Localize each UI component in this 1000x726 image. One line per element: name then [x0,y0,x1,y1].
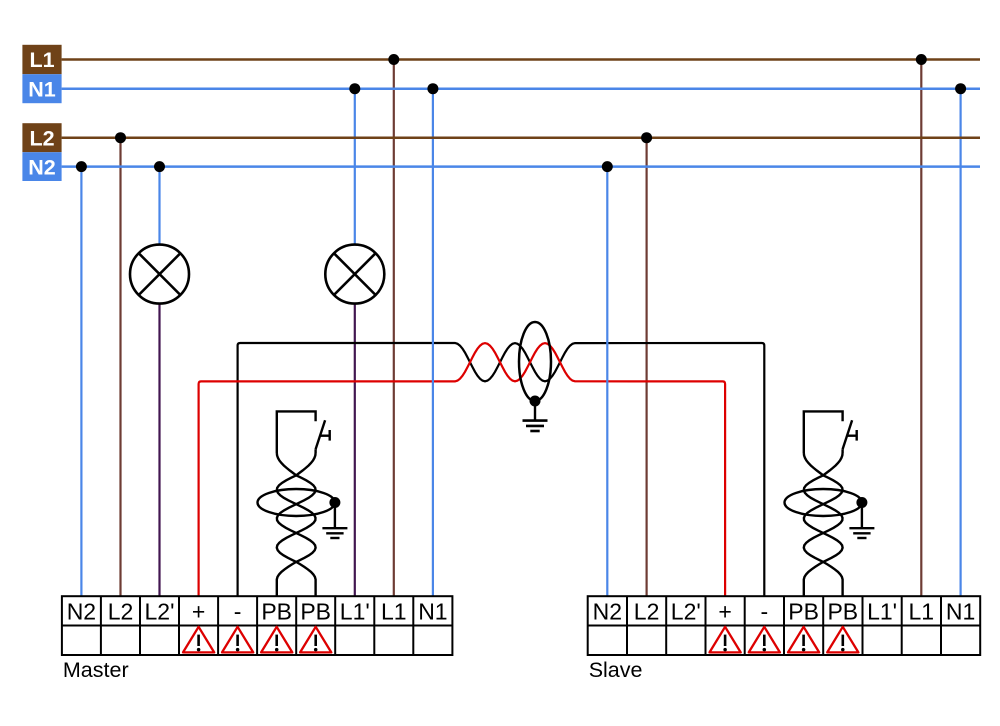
junction dot master L1 [388,54,399,65]
push button slave housing [804,411,843,453]
wire N1 bus to lamp E2 [354,89,356,245]
svg-text:Master: Master [63,658,129,682]
warning triangle Slave + [710,627,741,653]
wire L1 bus to slave L1 terminal [920,60,922,597]
warning triangle Master + [183,627,214,653]
svg-text:PB: PB [827,598,858,624]
ground symbol (bus shield) [523,421,548,431]
push button slave cord wire to PB (right) [804,453,843,596]
bus label box L2 [22,123,61,152]
wire N1 bus to master N1 terminal [432,89,434,597]
svg-text:N1: N1 [28,77,56,101]
push button master shield loop [258,489,335,516]
junction dot slave L1 [916,54,927,65]
svg-text:L2: L2 [108,598,134,624]
junction dot master N2 [76,161,87,172]
terminal strip Master [62,596,453,655]
svg-text:N1: N1 [946,598,975,624]
svg-text:N2: N2 [593,598,622,624]
svg-text:L2': L2' [671,598,701,624]
wire N2 bus to lamp E1 [158,167,160,245]
push button master housing [277,411,316,453]
svg-text:L2: L2 [634,598,660,624]
wire master shield to earth [334,507,336,528]
junction dot slave N2 [602,161,613,172]
wire bus N1 [62,87,980,90]
lamp E2 [325,245,384,304]
junction dot master L2 [115,132,126,143]
wire N1 bus to slave N1 terminal [959,89,961,597]
junction dot master shield [329,497,340,508]
wire bus N2 [62,165,980,168]
wire slave shield to earth [861,507,863,528]
junction dot slave shield [856,497,867,508]
svg-text:L1': L1' [340,598,370,624]
svg-text:N1: N1 [418,598,447,624]
bus label box L1 [22,45,61,74]
svg-text:+: + [192,598,205,624]
svg-text:L1: L1 [29,48,54,72]
push button master cord wire to PB (left) [277,453,316,596]
wire lamp E2 to master L1' terminal [354,304,356,597]
svg-text:PB: PB [300,598,331,624]
junction dot lamp E1 feed [154,161,165,172]
svg-text:L1: L1 [909,598,935,624]
junction dot shield loop [530,396,541,407]
svg-text:-: - [760,598,768,624]
wire bus plus (red, master + to slave +) [199,343,726,596]
svg-text:Slave: Slave [589,658,643,682]
lamp E1 [130,245,189,304]
junction dot master N1 [427,83,438,94]
push button slave shield loop [785,489,862,516]
wire bus L1 [62,58,980,61]
junction dot slave N1 [955,83,966,94]
bus label box N1 [22,74,61,103]
svg-text:+: + [718,598,731,624]
push button slave contact lever [843,420,857,449]
wire bus minus (black, master - to slave -) [238,343,765,596]
terminal strip Slave [588,596,981,655]
svg-text:-: - [234,598,242,624]
wire shield to earth [534,405,536,421]
junction dot lamp E2 feed [349,83,360,94]
svg-text:N2: N2 [67,598,96,624]
warning triangle Master PB [300,627,331,653]
push button slave cord wire to PB (left) [804,453,843,596]
ground symbol (slave shield) [849,528,874,538]
wire N2 bus to master N2 terminal [80,167,82,597]
terminal labels Master [67,598,448,624]
wire L1 bus to master L1 terminal [393,60,395,597]
svg-text:L2: L2 [29,126,54,150]
warning triangle Master - [222,627,253,653]
push button master contact lever [316,420,330,449]
bus label box N2 [22,152,61,181]
junction dot slave L2 [641,132,652,143]
warning triangle Slave PB [788,627,819,653]
ground symbol (master shield) [322,528,347,538]
svg-text:L1: L1 [381,598,407,624]
wire bus L2 [62,136,980,139]
shield loop ellipse on bus pair [519,322,551,401]
svg-text:PB: PB [261,598,292,624]
warning triangle Slave PB [827,627,858,653]
push button master cord wire to PB (right) [277,453,316,596]
svg-text:N2: N2 [28,156,56,180]
terminal labels Slave [593,598,976,624]
wire L2 bus to slave L2 terminal [645,138,647,597]
wire L2 bus to master L2 terminal [119,138,121,597]
warning triangle Master PB [261,627,292,653]
svg-text:L2': L2' [145,598,175,624]
wire lamp E1 to master L2' terminal [158,304,160,597]
wire N2 bus to slave N2 terminal [606,167,608,597]
svg-text:PB: PB [788,598,819,624]
svg-text:L1': L1' [867,598,897,624]
warning triangle Slave - [749,627,780,653]
